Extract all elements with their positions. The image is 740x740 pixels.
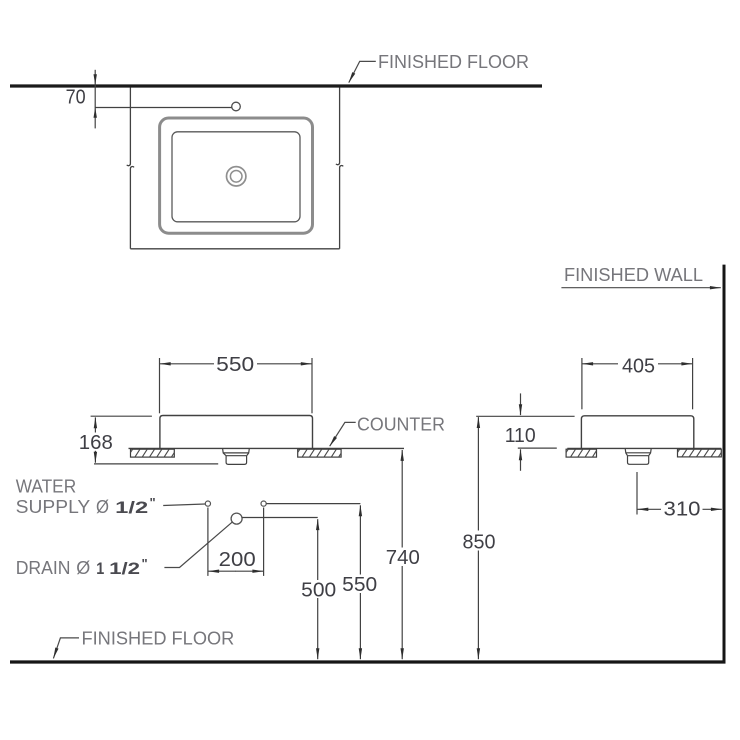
dim 200: dimension line with arrows [208, 570, 236, 572]
svg-text:": " [150, 495, 156, 510]
svg-text:200: 200 [219, 549, 256, 571]
svg-text:850: 850 [463, 532, 496, 554]
leader: COUNTER label [330, 422, 356, 446]
svg-text:550: 550 [216, 354, 254, 376]
dim 70: horizontal line to faucet hole [95, 107, 231, 109]
washbasin (side elevation) [581, 416, 693, 449]
svg-text:Ø: Ø [96, 497, 109, 517]
finished floor line (plan view, top thick line) [10, 84, 542, 87]
counter hatch right (side elevation, to wall) [678, 449, 722, 457]
dim 550: dimension line with arrows [160, 363, 214, 365]
svg-text:WATER: WATER [16, 477, 76, 497]
svg-text:310: 310 [664, 498, 701, 520]
svg-text:168: 168 [79, 432, 113, 454]
counter line (side elevation) [567, 447, 721, 449]
dim 405 (side elevation width): extension lines [581, 358, 583, 409]
drain fitting (side elevation) [625, 449, 651, 456]
dim 200: extension lines [207, 508, 209, 576]
svg-text:500: 500 [301, 579, 336, 601]
svg-text:Ø: Ø [76, 558, 90, 578]
counter hatch right (front elevation) [298, 449, 341, 457]
svg-text:550: 550 [342, 574, 377, 596]
dim 110: bottom arrow (below, pointing up) [520, 449, 522, 471]
svg-text:740: 740 [386, 547, 420, 569]
leader: finished floor (bottom) [53, 638, 79, 659]
sink-top extension line (shared by 850 and 110 dims) [476, 415, 574, 417]
water supply circles [205, 501, 210, 506]
svg-text:COUNTER: COUNTER [357, 415, 445, 435]
dim 168: bottom extension line [94, 463, 218, 465]
dim 168: vertical dim line with arrows [94, 417, 96, 432]
dim 70: extension/dim lines [94, 70, 96, 129]
counter (plan view) right side with break mark [336, 88, 340, 165]
finished floor line (bottom thick line) [10, 660, 726, 663]
dim 110: bottom extension line [518, 447, 557, 449]
dim 740: vertical line with arrows [401, 450, 403, 548]
dim 310: dimension line with arrows [637, 508, 661, 510]
svg-text:FINISHED FLOOR: FINISHED FLOOR [378, 52, 529, 72]
dim 850: vertical line with arrows [477, 417, 479, 530]
svg-text:DRAIN: DRAIN [16, 558, 71, 578]
svg-text:70: 70 [66, 87, 86, 109]
drain fitting (front elevation) [223, 449, 250, 456]
svg-text:405: 405 [622, 356, 655, 378]
svg-text:110: 110 [505, 425, 536, 447]
dim 405: dimension line with arrows [582, 363, 618, 365]
dim 70: top arrow (points down at floor line) [94, 74, 97, 85]
svg-text:": " [142, 556, 148, 571]
dim 110: top arrow (above, pointing down) [520, 393, 522, 415]
svg-text:1: 1 [96, 559, 104, 578]
leader/underline: finished wall with arrow [561, 287, 720, 289]
leader: water supply [163, 504, 205, 506]
counter hatch left (front elevation) [131, 449, 175, 457]
washbasin rim (plan view) [160, 118, 313, 233]
svg-text:1/2: 1/2 [109, 559, 140, 578]
svg-text:1/2: 1/2 [115, 498, 148, 517]
svg-text:FINISHED WALL: FINISHED WALL [564, 265, 703, 285]
line from drain circle to 500 dim [242, 517, 318, 519]
washbasin (front elevation) [160, 416, 313, 449]
drain point circle [231, 513, 242, 524]
extension line below side drain (for 310 dim) [636, 472, 638, 515]
dim 550 (vertical): line with arrows [359, 505, 361, 574]
counter (plan view) bottom edge [130, 248, 339, 250]
dim 168: top extension line [91, 415, 152, 417]
svg-text:FINISHED FLOOR: FINISHED FLOOR [82, 629, 235, 649]
counter (plan view) left side with break mark [127, 88, 131, 166]
faucet hole (plan) [232, 102, 241, 111]
leader: finished floor (top) [349, 61, 376, 82]
dim 70: bottom arrow (points up at hole c/l line) [94, 107, 97, 118]
leader: drain [164, 522, 232, 568]
svg-text:SUPPLY: SUPPLY [16, 497, 91, 517]
line from supply circle to 550 dim [266, 503, 360, 505]
finished wall line (thick vertical) [723, 265, 726, 664]
counter line (front elevation) [129, 447, 405, 449]
dim 500: vertical line with arrows [317, 519, 319, 580]
dim 550 (front elevation width): extension lines [159, 358, 161, 413]
drain (plan view) double circle [227, 167, 246, 186]
washbasin inner edge (plan view) [172, 132, 300, 222]
counter hatch left (side elevation) [566, 449, 596, 457]
